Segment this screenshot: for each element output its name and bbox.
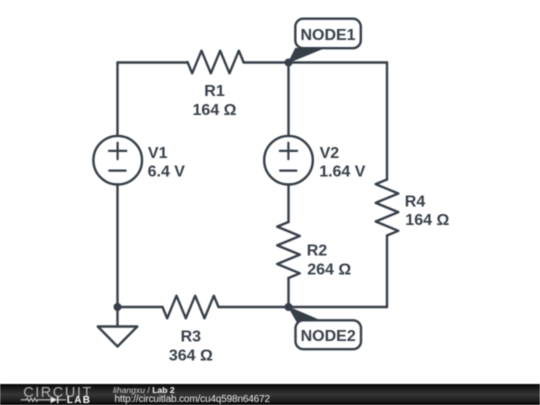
resistor R4 labels: [405, 194, 450, 230]
svg-text:R4: R4: [405, 194, 426, 211]
resistor R1: [188, 51, 244, 74]
wire R1 to NODE1: [244, 61, 289, 63]
svg-text:V1: V1: [148, 145, 168, 162]
wire bottom-left to R3: [118, 306, 163, 308]
ground: [98, 307, 138, 347]
wire left branch vertical (top): [116, 63, 118, 137]
wire NODE1 down to V2: [287, 63, 289, 137]
svg-text:164 Ω: 164 Ω: [405, 212, 449, 229]
wire V2 to R2: [287, 185, 289, 223]
node label NODE1 callout pointer: [289, 48, 324, 62]
resistor R2 labels: [307, 243, 352, 279]
node label NODE2 callout pointer: [289, 307, 323, 321]
node label NODE1 box: [295, 19, 361, 49]
svg-text:R3: R3: [181, 329, 202, 346]
svg-text:NODE2: NODE2: [301, 328, 356, 345]
wire right branch vertical top: [386, 63, 388, 180]
voltage source V2 labels: [319, 145, 366, 181]
node ground junction dot: [114, 303, 122, 311]
node label NODE2 box: [296, 320, 362, 349]
resistor R3: [163, 296, 219, 319]
svg-text:264 Ω: 264 Ω: [307, 262, 351, 279]
resistor R4: [376, 180, 399, 236]
svg-text:1.64 V: 1.64 V: [319, 164, 366, 181]
svg-text:364 Ω: 364 Ω: [169, 347, 213, 364]
wire NODE2 to bottom-right corner: [289, 306, 388, 308]
footer bar: [0, 384, 540, 405]
wire R2 to NODE2: [287, 278, 289, 307]
wire NODE1 to top-right corner: [289, 61, 388, 63]
voltage source V1: [93, 136, 142, 185]
svg-text:LAB: LAB: [67, 395, 91, 405]
resistor R3 labels: [169, 329, 213, 365]
svg-text:164 Ω: 164 Ω: [193, 102, 237, 119]
wire V1 bottom to bottom-left corner: [116, 185, 118, 308]
svg-text:NODE1: NODE1: [300, 27, 355, 44]
voltage source V1 labels: [148, 145, 186, 181]
svg-text:R2: R2: [307, 243, 328, 260]
svg-text:R1: R1: [204, 83, 225, 100]
CircuitLab logo: [0, 384, 110, 405]
wire top-left horizontal segment: [118, 61, 188, 63]
attribution line 2: url: [115, 395, 270, 405]
svg-text:V2: V2: [320, 145, 340, 162]
attribution line 1: user / title: [113, 385, 175, 395]
node NODE2 junction dot: [285, 303, 293, 311]
wire R4 to bottom-right corner: [386, 236, 388, 308]
wire R3 to NODE2: [219, 306, 289, 308]
voltage source V2: [264, 136, 313, 185]
node NODE1 junction dot: [285, 59, 293, 67]
resistor R1 labels: [193, 83, 237, 119]
svg-text:6.4 V: 6.4 V: [148, 164, 186, 181]
resistor R2: [277, 222, 300, 278]
